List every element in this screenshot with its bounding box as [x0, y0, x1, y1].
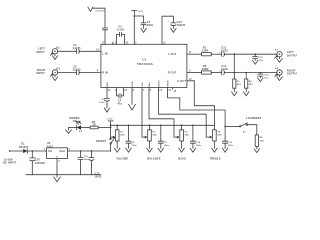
text BASS [178, 157, 186, 161]
ground [126, 148, 131, 152]
connector K4 right output jack [275, 67, 282, 77]
ground [254, 149, 259, 153]
node junction [32, 150, 34, 152]
capacitor C2 2.2/25 [73, 64, 101, 74]
node junction [80, 150, 82, 152]
capacitor C11 10/25 [219, 46, 277, 57]
text RIGHT OUTPUT [287, 68, 299, 75]
node junction [110, 127, 112, 129]
ground [104, 108, 109, 112]
node junction [234, 53, 236, 55]
svg-text:100n: 100n [228, 145, 234, 147]
resistor R1 220R [202, 46, 222, 56]
ground [258, 78, 263, 82]
wire [58, 50, 77, 52]
switch S2 ON/OFF [96, 137, 115, 151]
svg-text:K2: K2 [56, 67, 60, 71]
node junction [116, 125, 118, 127]
node junction [260, 72, 262, 74]
potentiometer P3 50K bass [180, 125, 189, 148]
ground [141, 28, 146, 32]
IC bottom pin labels [107, 79, 186, 87]
capacitor C3 0.1uF bridge [115, 25, 129, 45]
ground [66, 128, 72, 134]
wire pin 6 balance control to P2 wiper [149, 88, 179, 138]
ground [190, 148, 195, 152]
op-amp IC U1 TDA1524A body [101, 44, 187, 87]
wire [27, 150, 46, 152]
svg-text:7812: 7812 [47, 144, 54, 148]
pin 8 R OUT wire [168, 71, 202, 75]
svg-text:100/25: 100/25 [177, 23, 186, 27]
svg-text:50K: 50K [120, 135, 125, 137]
svg-text:ON/OFF: ON/OFF [96, 139, 107, 143]
text DC input [3, 157, 17, 164]
wire ground rail [26, 174, 101, 176]
ground [158, 148, 163, 152]
text LOUDNESS [246, 116, 262, 120]
wire [58, 71, 77, 73]
svg-text:10n: 10n [264, 78, 269, 80]
svg-text:100u: 100u [99, 102, 105, 104]
connector K2 right input jack [50, 67, 60, 77]
regulator U2 7812 [44, 141, 71, 163]
svg-text:L OUT: L OUT [168, 52, 177, 56]
wire [10, 150, 24, 152]
svg-text:4K7: 4K7 [249, 83, 254, 86]
svg-text:50K: 50K [217, 135, 222, 137]
text RIGHT INPUT [36, 68, 45, 75]
diode D1 1N4007 [19, 142, 29, 154]
pin 2 stub [112, 43, 115, 45]
svg-text:+12V: +12V [107, 119, 113, 121]
capacitor C10 1000u/25 [30, 151, 46, 175]
node junction [224, 126, 226, 128]
svg-text:VOLUME: VOLUME [116, 157, 128, 161]
capacitor C12 10/25 [219, 64, 277, 75]
wire U2 output [68, 150, 111, 152]
resistor R4 4K7 [245, 73, 254, 92]
svg-text:1N4007: 1N4007 [19, 145, 29, 149]
svg-text:10K: 10K [260, 140, 265, 142]
svg-text:100n: 100n [164, 145, 170, 147]
svg-text:10/25: 10/25 [221, 67, 229, 71]
node junction [110, 125, 112, 127]
svg-text:INPUT: INPUT [36, 71, 45, 75]
svg-text:+12V: +12V [138, 11, 144, 13]
svg-text:L IN: L IN [102, 52, 107, 56]
svg-text:VOL: VOL [142, 81, 144, 86]
svg-text:ON: ON [73, 119, 77, 123]
node junction [181, 125, 183, 127]
svg-text:Vin: Vin [48, 149, 53, 153]
svg-text:C6 100n: C6 100n [96, 10, 106, 12]
ground [147, 148, 152, 152]
resistor R3 4K7 [233, 54, 242, 92]
svg-text:TREBLE: TREBLE [210, 157, 221, 161]
potentiometer P1 50K volume [111, 125, 125, 148]
capacitor C17 10/25 [89, 151, 102, 179]
ground [277, 57, 282, 62]
ground IC gnd pin [129, 88, 136, 111]
ground [244, 92, 249, 96]
svg-text:220n: 220n [147, 23, 154, 27]
svg-text:100n: 100n [196, 145, 202, 147]
svg-text:INPUT: INPUT [36, 50, 45, 54]
svg-text:220R: 220R [202, 49, 209, 53]
svg-text:10/25: 10/25 [94, 175, 102, 179]
wire U2 gnd pin [56, 158, 58, 174]
node DC input terminal [9, 150, 11, 152]
node junction [91, 150, 93, 152]
svg-text:C14: C14 [264, 74, 269, 77]
connector K3 left output jack [275, 50, 282, 59]
svg-text:BASS: BASS [157, 80, 160, 87]
svg-text:4K7: 4K7 [237, 83, 242, 86]
text BALANCE [147, 157, 161, 161]
node junction [192, 125, 194, 127]
pin 11 L OUT wire [168, 52, 201, 56]
resistor R5 1k [81, 120, 98, 129]
svg-text:LOUDNESS: LOUDNESS [246, 116, 262, 120]
ground [212, 148, 217, 152]
wire pin 10 bass control to P3 wiper [159, 88, 212, 138]
svg-text:L1: L1 [79, 129, 83, 133]
svg-text:OUTPUT: OUTPUT [287, 72, 297, 76]
potentiometer P2 50K balance [148, 125, 157, 148]
node junction [160, 125, 162, 127]
svg-text:OUTPUT: OUTPUT [287, 53, 297, 57]
capacitor C18 100n [190, 125, 201, 148]
svg-text:TREB: TREB [167, 80, 169, 87]
svg-text:1000/25: 1000/25 [35, 161, 46, 165]
svg-text:10n: 10n [259, 60, 264, 62]
svg-text:50K: 50K [153, 135, 158, 137]
svg-text:1K: 1K [92, 123, 96, 127]
capacitor C7 47u bridge [115, 88, 127, 106]
pin stub [173, 88, 177, 94]
wire pin 14 treble control [168, 88, 226, 142]
ground [115, 148, 120, 152]
wire pin 7 volume control to P1 wiper [142, 88, 147, 138]
svg-text:BAL: BAL [148, 81, 151, 86]
svg-text:C OUT: C OUT [177, 79, 186, 83]
svg-text:220R: 220R [202, 67, 209, 71]
svg-text:0.1uF: 0.1uF [117, 28, 125, 32]
ground [171, 28, 176, 32]
capacitor C4 220n [134, 16, 153, 28]
svg-text:C15: C15 [258, 57, 263, 59]
svg-text:TDA1524A: TDA1524A [137, 62, 154, 66]
LED L1 POWER ON [69, 116, 82, 133]
capacitor C9 100n [158, 125, 169, 148]
svg-text:2.2/25: 2.2/25 [73, 46, 81, 50]
svg-text:10/25: 10/25 [221, 49, 229, 53]
svg-text:C19: C19 [228, 142, 233, 144]
ground [54, 175, 60, 182]
ground [232, 92, 237, 96]
ground [52, 54, 57, 59]
node junction [128, 125, 130, 127]
svg-text:C16: C16 [84, 156, 89, 158]
svg-text:BALANCE: BALANCE [147, 157, 161, 161]
svg-text:K1: K1 [56, 45, 60, 49]
ground (inverted, above) [88, 7, 93, 11]
capacitor C5 100u [99, 88, 111, 108]
wire [69, 127, 77, 129]
svg-text:C18: C18 [196, 142, 201, 144]
resistor R2 220R [202, 64, 222, 74]
node junction [149, 125, 151, 127]
capacitor C15 10n [253, 54, 264, 62]
ground [253, 60, 258, 64]
connector K1 left input jack [50, 45, 60, 55]
power +12V top symbol [132, 11, 144, 45]
capacitor C1 2.2/25 [73, 43, 101, 53]
capacitor C8 100n [126, 125, 137, 148]
ground [179, 148, 184, 152]
svg-text:2.2/25: 2.2/25 [73, 67, 81, 71]
ground [222, 148, 227, 152]
pin 4 R IN [97, 70, 108, 75]
svg-text:47u: 47u [117, 102, 122, 106]
node junction [134, 15, 136, 17]
ground [52, 75, 57, 81]
power +12V rail symbol [107, 119, 113, 138]
pin 15 L IN [96, 49, 107, 55]
svg-text:GND: GND [132, 81, 134, 87]
node junction [254, 53, 256, 55]
svg-text:Vout: Vout [59, 149, 65, 153]
svg-text:REF: REF [107, 82, 109, 87]
node junction [245, 72, 247, 74]
svg-text:100n: 100n [131, 145, 137, 147]
svg-text:BASS: BASS [178, 157, 186, 161]
wire LED branch [98, 127, 110, 129]
wire +12V pot rail [111, 124, 215, 126]
node junction [234, 72, 236, 74]
ground [277, 75, 282, 80]
capacitor C6 100n to ground [93, 8, 108, 44]
capacitor C16 100n [78, 151, 90, 175]
text TREBLE [210, 157, 221, 161]
text LEFT OUTPUT [287, 50, 299, 57]
svg-text:R IN: R IN [102, 71, 108, 75]
svg-text:50K: 50K [185, 135, 190, 137]
capacitor C19 100n [223, 141, 234, 148]
svg-text:DC INPUT: DC INPUT [3, 161, 17, 165]
capacitor C14 10n [258, 73, 269, 80]
capacitor C13 100u/25 [162, 16, 186, 44]
text VOLUME [116, 157, 128, 161]
switch S1 loudness [225, 123, 257, 135]
text LEFT INPUT [36, 47, 45, 54]
resistor R6 10K [255, 135, 264, 149]
potentiometer P4 50K treble [213, 125, 222, 148]
svg-text:R OUT: R OUT [168, 71, 177, 75]
wire pin 12 C OUT loop [187, 79, 215, 126]
